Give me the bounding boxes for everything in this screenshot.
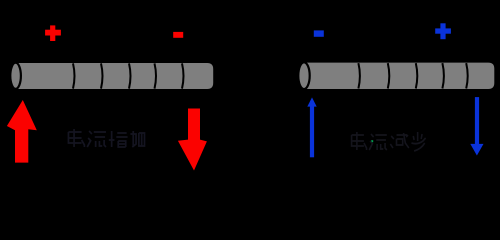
char 流 bbox=[87, 131, 106, 147]
blue up arrow bbox=[307, 97, 316, 157]
right rod segment line 4 bbox=[442, 63, 444, 88]
right rod segment line 5 bbox=[466, 63, 468, 88]
char 增 bbox=[109, 131, 128, 147]
red up arrow bbox=[7, 100, 37, 163]
char 少 bbox=[411, 132, 425, 151]
red minus sign bbox=[173, 32, 183, 38]
right rod body bbox=[304, 63, 494, 89]
red down arrow bbox=[178, 109, 207, 171]
right caption: 电流减少 (drawn strokes, very dark) bbox=[352, 132, 426, 151]
char 电 bbox=[68, 129, 84, 147]
right rod end cap ellipse bbox=[298, 62, 309, 89]
char 流 bbox=[369, 134, 387, 150]
left rod segment line 2 bbox=[101, 63, 103, 88]
blue minus sign bbox=[314, 30, 324, 36]
left rod segment line 4 bbox=[155, 63, 157, 88]
left rod segment line 3 bbox=[129, 63, 131, 88]
red plus sign bbox=[45, 25, 61, 41]
left rod end cap ellipse bbox=[10, 63, 21, 89]
right rod segment line 3 bbox=[416, 63, 418, 88]
left rod segment line 5 bbox=[182, 63, 184, 88]
char 电 bbox=[352, 132, 367, 150]
blue down arrow bbox=[470, 97, 483, 155]
left rod body bbox=[16, 63, 214, 89]
green speck artifact bbox=[371, 140, 373, 142]
char 减 bbox=[390, 133, 409, 148]
right rod segment line 2 bbox=[388, 63, 390, 88]
left caption: 电流增加 (drawn strokes, very dark blue) bbox=[68, 129, 144, 147]
left rod segment line 1 bbox=[73, 63, 75, 88]
right rod segment line 1 bbox=[358, 63, 360, 88]
blue plus sign bbox=[435, 23, 451, 39]
char 加 bbox=[130, 131, 144, 147]
